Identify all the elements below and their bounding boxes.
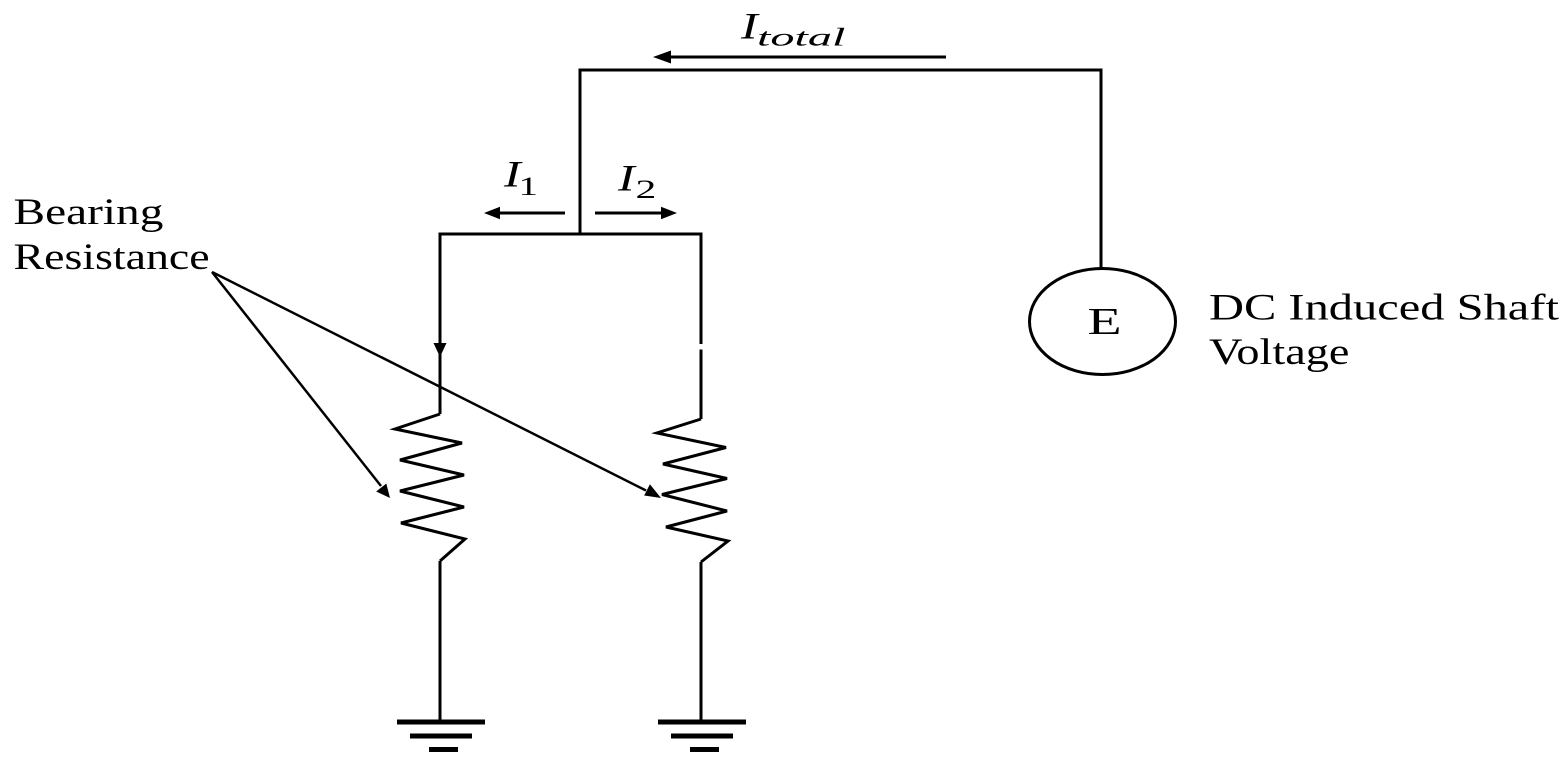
label: DC Induced Shaft Voltage — [1209, 288, 1559, 373]
current direction arrowhead on left branch — [434, 343, 447, 357]
wire: junction bar — [439, 233, 702, 236]
svg-text:Resistance: Resistance — [14, 237, 210, 278]
svg-text:1: 1 — [519, 172, 538, 201]
resistor R2 (right bearing resistance) — [657, 419, 728, 562]
svg-text:E: E — [1088, 300, 1122, 343]
wire: left branch upper — [439, 233, 442, 415]
label I_total — [740, 6, 846, 52]
wire: right branch lower — [700, 562, 703, 721]
wire: left branch lower — [439, 561, 442, 721]
annotation arrow to R2 — [212, 272, 661, 498]
svg-text:Bearing: Bearing — [14, 192, 164, 233]
label: Bearing Resistance — [14, 192, 210, 278]
resistor R1 (left bearing resistance) — [395, 414, 465, 561]
wire: right branch upper (above gap) — [700, 233, 703, 345]
voltage source E — [1030, 269, 1176, 375]
current arrow I1 — [484, 207, 565, 219]
svg-text:I: I — [617, 158, 637, 199]
wire: right branch upper (below gap) — [700, 350, 703, 420]
current arrow I2 — [595, 207, 677, 219]
ground (left) — [397, 722, 485, 750]
label I1 — [503, 154, 538, 202]
svg-text:total: total — [757, 24, 845, 51]
svg-text:2: 2 — [636, 175, 657, 204]
annotation arrow to R1 — [212, 272, 390, 498]
svg-text:DC Induced Shaft: DC Induced Shaft — [1209, 288, 1559, 328]
ground (right) — [658, 722, 746, 750]
current arrow I_total — [653, 51, 946, 64]
wire: main loop (junction riser, top horizontal, source lead) — [580, 70, 1101, 269]
label I2 — [617, 158, 656, 204]
svg-text:Voltage: Voltage — [1209, 332, 1349, 373]
